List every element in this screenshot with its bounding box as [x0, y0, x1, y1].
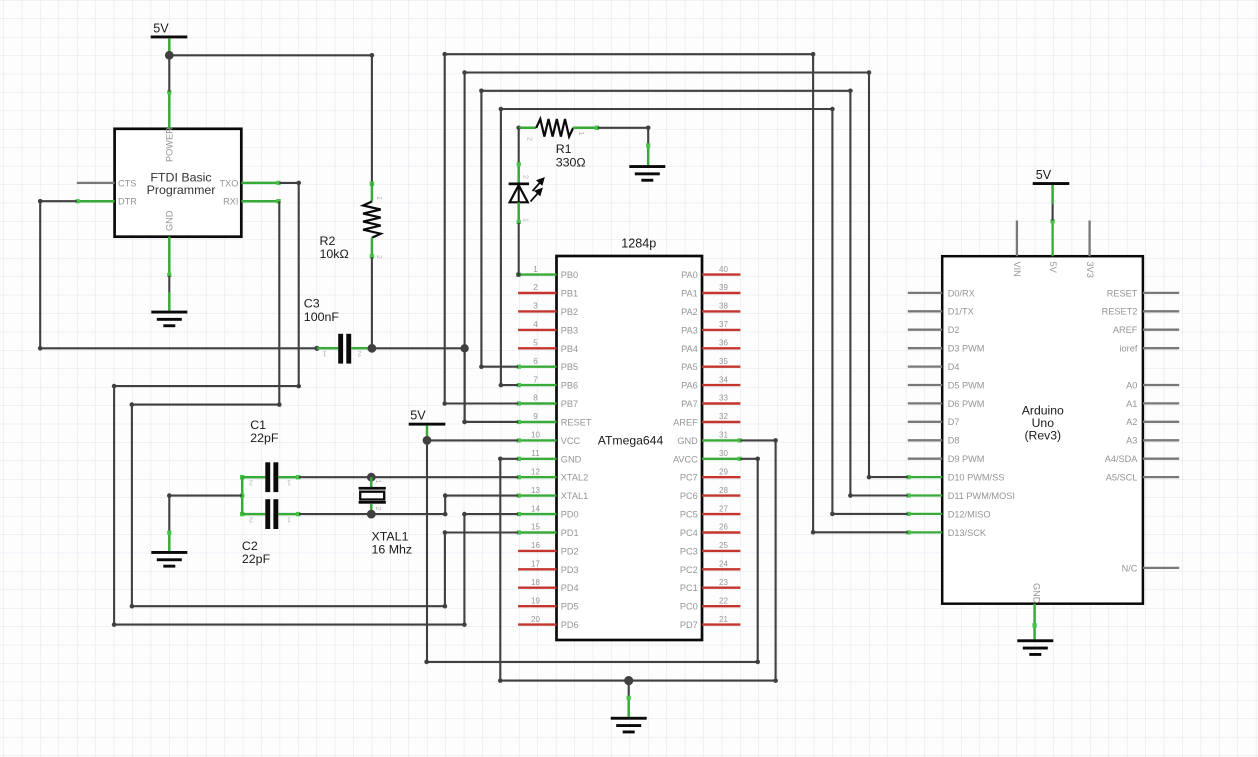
pin CTS (FTDI left) — [77, 178, 137, 188]
pin D13/SCK (Arduino left) — [907, 528, 987, 538]
pin 20 PD6 (ATmega left) — [518, 615, 579, 630]
svg-text:A2: A2 — [1126, 417, 1137, 427]
wire FTDI GND to ground — [168, 276, 170, 293]
capacitor C3 — [304, 297, 372, 364]
svg-text:(Rev3): (Rev3) — [1025, 429, 1062, 443]
pin 3V3 (Arduino top) — [1085, 221, 1095, 278]
svg-text:34: 34 — [719, 375, 728, 384]
pin RESET (Arduino right) — [1107, 288, 1179, 298]
svg-text:CTS: CTS — [118, 178, 136, 188]
pin A5/SCL (Arduino right) — [1106, 473, 1179, 483]
pin D2 (Arduino left) — [908, 325, 960, 335]
ground central below ATmega — [611, 717, 647, 734]
wire 5V-to-Arduino — [1052, 204, 1054, 221]
pin 5 PB4 (ATmega left) — [518, 339, 578, 354]
svg-text:14: 14 — [531, 504, 540, 513]
svg-text:5V: 5V — [410, 409, 426, 423]
svg-text:GND: GND — [1031, 583, 1041, 604]
Arduino Uno (Rev3) body — [942, 256, 1143, 604]
svg-text:26: 26 — [719, 523, 728, 532]
LED D1 — [509, 162, 544, 224]
pin 26 PC4 (ATmega right) — [680, 523, 740, 538]
pin 31 GND (ATmega right) — [677, 431, 741, 446]
node bend at R2 top — [370, 53, 375, 58]
wire RXI net: down, left, down, right, up to PD1 — [130, 201, 519, 608]
svg-text:5V: 5V — [1036, 168, 1052, 182]
svg-text:1: 1 — [287, 479, 291, 486]
svg-text:2: 2 — [522, 175, 529, 179]
svg-text:GND: GND — [165, 210, 175, 231]
pin D5 PWM (Arduino left) — [908, 380, 985, 390]
svg-text:5V: 5V — [153, 22, 169, 36]
pin A3 (Arduino right) — [1126, 436, 1179, 446]
ground below R1 — [629, 165, 665, 182]
pin 6 PB5 (ATmega left) — [517, 357, 578, 372]
pin 23 PC1 (ATmega right) — [680, 578, 740, 593]
pin ioref (Arduino right) — [1120, 344, 1180, 354]
wire R2 top lead down from 5V rail — [371, 55, 373, 183]
wire DTR net: left + down + across to C3 pin1 — [38, 199, 317, 351]
svg-text:32: 32 — [719, 412, 728, 421]
svg-text:20: 20 — [531, 615, 540, 624]
pin 25 PC3 (ATmega right) — [680, 541, 740, 556]
svg-text:PD0: PD0 — [561, 510, 579, 520]
svg-text:PC0: PC0 — [680, 602, 698, 612]
svg-text:33: 33 — [719, 394, 728, 403]
pin 30 AVCC (ATmega right) — [673, 449, 742, 464]
svg-text:PA1: PA1 — [681, 289, 698, 299]
svg-text:PC7: PC7 — [680, 473, 698, 483]
svg-text:1: 1 — [522, 218, 529, 222]
svg-text:C2: C2 — [242, 539, 258, 553]
svg-text:PD2: PD2 — [561, 546, 579, 556]
svg-text:25: 25 — [719, 541, 728, 550]
svg-text:PC3: PC3 — [680, 546, 698, 556]
wire C2 to crystal bottom — [299, 513, 445, 515]
pin 36 PA4 (ATmega right) — [681, 339, 740, 354]
svg-text:330Ω: 330Ω — [556, 155, 586, 169]
pin D4 (Arduino left) — [908, 362, 960, 372]
capacitor C2 — [240, 499, 300, 566]
svg-text:28: 28 — [719, 486, 728, 495]
svg-text:C3: C3 — [304, 297, 320, 311]
svg-text:Programmer: Programmer — [147, 183, 216, 197]
pin 5V (Arduino top) — [1048, 219, 1058, 273]
svg-text:POWER: POWER — [165, 127, 175, 162]
svg-text:ATmega644: ATmega644 — [598, 433, 664, 447]
svg-text:2: 2 — [358, 350, 362, 357]
svg-text:PB6: PB6 — [561, 381, 578, 391]
pin N/C (Arduino right) — [1122, 563, 1180, 573]
ground below FTDI — [151, 311, 187, 328]
svg-text:22pF: 22pF — [250, 431, 279, 445]
svg-text:2: 2 — [249, 515, 253, 522]
pin RESET2 (Arduino right) — [1102, 307, 1180, 317]
svg-text:D1/TX: D1/TX — [948, 307, 974, 317]
svg-text:A1: A1 — [1126, 399, 1137, 409]
wire crystal top to XTAL1 pin — [443, 493, 518, 516]
pin D9 PWM (Arduino left) — [908, 454, 985, 464]
svg-text:D13/SCK: D13/SCK — [948, 528, 987, 538]
svg-text:23: 23 — [719, 578, 728, 587]
ground below Arduino — [1017, 639, 1053, 656]
5V supply symbol above ATmega VCC — [409, 409, 446, 437]
pin D11 PWM/MOSI (Arduino left) — [907, 491, 1015, 501]
svg-text:RESET2: RESET2 — [1102, 307, 1138, 317]
ground lead below FTDI — [168, 292, 171, 310]
svg-text:8: 8 — [533, 394, 538, 403]
pin 21 PD7 (ATmega right) — [680, 615, 740, 630]
pin D7 (Arduino left) — [908, 417, 960, 427]
pin D1/TX (Arduino left) — [908, 307, 974, 317]
svg-text:21: 21 — [719, 615, 728, 624]
pin 37 PA3 (ATmega right) — [681, 320, 740, 335]
svg-text:D5 PWM: D5 PWM — [948, 380, 985, 390]
svg-text:5V: 5V — [1048, 262, 1058, 274]
pin 13 XTAL1 (ATmega left) — [517, 486, 588, 501]
svg-text:PD5: PD5 — [561, 602, 579, 612]
svg-text:PD4: PD4 — [561, 583, 579, 593]
svg-text:PB7: PB7 — [561, 399, 578, 409]
ground below load caps — [151, 551, 187, 568]
wire C1 to XTAL2 pin row — [299, 476, 518, 478]
svg-text:18: 18 — [531, 578, 540, 587]
pin 32 AREF (ATmega right) — [673, 412, 740, 427]
wire stub to central ground — [627, 681, 631, 717]
pin A1 (Arduino right) — [1126, 399, 1179, 409]
svg-text:19: 19 — [531, 596, 540, 605]
pin 2 PB1 (ATmega left) — [518, 283, 578, 298]
svg-text:D12/MISO: D12/MISO — [948, 509, 991, 519]
svg-text:PC1: PC1 — [680, 583, 698, 593]
svg-text:TXO: TXO — [220, 178, 239, 188]
svg-text:1: 1 — [287, 515, 291, 522]
svg-text:PC6: PC6 — [680, 491, 698, 501]
svg-text:PD7: PD7 — [680, 620, 698, 630]
svg-text:PB2: PB2 — [561, 307, 578, 317]
svg-text:D2: D2 — [948, 325, 960, 335]
svg-text:1284p: 1284p — [621, 237, 656, 251]
pin 1 PB0 (ATmega left) — [518, 265, 578, 280]
svg-text:22: 22 — [719, 596, 728, 605]
svg-text:16: 16 — [531, 541, 540, 550]
svg-text:XTAL1: XTAL1 — [561, 491, 588, 501]
svg-text:A5/SCL: A5/SCL — [1106, 473, 1138, 483]
svg-text:12: 12 — [531, 467, 540, 476]
pin 9 RESET (ATmega left) — [517, 412, 592, 427]
node central ground junction — [624, 676, 633, 685]
wire TXO net: down, left, down, right, up to PD0 — [112, 181, 518, 627]
svg-text:10: 10 — [531, 431, 540, 440]
pin 15 PD1 (ATmega left) — [517, 523, 579, 538]
pin GND (Arduino bottom) — [1031, 583, 1041, 639]
pin 19 PD5 (ATmega left) — [518, 596, 579, 611]
pin 11 GND (ATmega left) — [517, 449, 582, 464]
svg-text:2: 2 — [375, 255, 382, 259]
pin A4/SDA (Arduino right) — [1105, 454, 1179, 464]
svg-text:D9 PWM: D9 PWM — [948, 454, 985, 464]
svg-text:R1: R1 — [556, 142, 572, 156]
svg-text:2: 2 — [374, 507, 381, 511]
svg-text:D7: D7 — [948, 417, 960, 427]
svg-text:D11 PWM/MOSI: D11 PWM/MOSI — [948, 491, 1015, 501]
svg-text:35: 35 — [719, 357, 728, 366]
svg-text:VIN: VIN — [1012, 262, 1022, 277]
wire R1 left down to LED — [518, 128, 520, 164]
svg-text:GND: GND — [561, 454, 582, 464]
crystal XTAL1 16 MHz — [359, 473, 413, 557]
pin 7 PB6 (ATmega left) — [517, 375, 578, 390]
svg-text:11: 11 — [531, 449, 540, 458]
svg-text:2: 2 — [533, 283, 538, 292]
svg-text:6: 6 — [533, 357, 538, 366]
svg-text:PA0: PA0 — [681, 270, 698, 280]
wire R2 bottom to C3 junction — [371, 257, 373, 348]
svg-text:17: 17 — [531, 560, 540, 569]
wire SS net RESET to D10 — [462, 70, 907, 479]
wire 5V junction down to FTDI POWER — [168, 51, 170, 92]
svg-text:PA6: PA6 — [681, 381, 698, 391]
svg-text:A4/SDA: A4/SDA — [1105, 454, 1139, 464]
wire C3 junction to RESET drop — [372, 347, 465, 349]
svg-text:1: 1 — [374, 480, 381, 484]
pin 38 PA2 (ATmega right) — [681, 302, 740, 317]
svg-text:D0/RX: D0/RX — [948, 288, 975, 298]
svg-text:PB0: PB0 — [561, 270, 578, 280]
svg-text:PB5: PB5 — [561, 362, 578, 372]
svg-text:1: 1 — [323, 350, 327, 357]
FTDI Basic Programmer body — [115, 129, 242, 237]
pin AREF (Arduino right) — [1113, 325, 1179, 335]
svg-text:RESET: RESET — [561, 418, 592, 428]
svg-text:PD1: PD1 — [561, 528, 579, 538]
svg-text:100nF: 100nF — [304, 310, 340, 324]
pin 17 PD3 (ATmega left) — [518, 560, 579, 575]
pin 4 PB3 (ATmega left) — [518, 320, 578, 335]
pin 40 PA0 (ATmega right) — [681, 265, 740, 280]
pin TXO (FTDI right) — [220, 178, 281, 188]
svg-text:D4: D4 — [948, 362, 960, 372]
pin 34 PA6 (ATmega right) — [681, 375, 740, 390]
pin 8 PB7 (ATmega left) — [517, 394, 578, 409]
svg-text:38: 38 — [719, 302, 728, 311]
wire LED to PB0 — [516, 223, 521, 277]
svg-text:PD6: PD6 — [561, 620, 579, 630]
svg-text:1: 1 — [375, 196, 382, 200]
svg-text:24: 24 — [719, 560, 728, 569]
pin 10 VCC (ATmega left) — [517, 431, 581, 446]
node junction 5V/VCC — [423, 436, 432, 445]
svg-text:D3 PWM: D3 PWM — [948, 344, 985, 354]
resistor R2 — [320, 182, 383, 262]
svg-text:PC4: PC4 — [680, 528, 698, 538]
pin 39 PA1 (ATmega right) — [681, 283, 740, 298]
svg-text:37: 37 — [719, 320, 728, 329]
pin 18 PD4 (ATmega left) — [518, 578, 579, 593]
5V supply symbol above Arduino — [1033, 168, 1070, 204]
pin VIN (Arduino top) — [1012, 221, 1022, 277]
wire C1/C2 common leg — [240, 477, 244, 514]
svg-text:36: 36 — [719, 339, 728, 348]
svg-text:PA2: PA2 — [681, 307, 698, 317]
svg-text:29: 29 — [719, 467, 728, 476]
svg-text:31: 31 — [719, 431, 728, 440]
svg-text:ioref: ioref — [1120, 344, 1138, 354]
resistor R1 — [516, 119, 599, 169]
svg-text:PB4: PB4 — [561, 344, 578, 354]
svg-text:D6 PWM: D6 PWM — [948, 399, 985, 409]
svg-text:PD3: PD3 — [561, 565, 579, 575]
pin 27 PC5 (ATmega right) — [680, 504, 740, 519]
svg-text:9: 9 — [533, 412, 538, 421]
svg-text:4: 4 — [533, 320, 538, 329]
svg-text:1: 1 — [577, 132, 584, 136]
svg-text:27: 27 — [719, 504, 728, 513]
pin 16 PD2 (ATmega left) — [518, 541, 579, 556]
wire 5V junction to VCC pin — [427, 439, 518, 441]
svg-text:D8: D8 — [948, 436, 960, 446]
svg-text:PA3: PA3 — [681, 325, 698, 335]
svg-text:PA5: PA5 — [681, 362, 698, 372]
5V supply symbol above FTDI — [151, 22, 188, 52]
svg-text:3V3: 3V3 — [1085, 262, 1095, 278]
svg-text:40: 40 — [719, 265, 728, 274]
wire cap leg to ground — [167, 493, 242, 551]
svg-text:22pF: 22pF — [242, 552, 271, 566]
pin D3 PWM (Arduino left) — [908, 344, 985, 354]
svg-text:RXI: RXI — [223, 197, 238, 207]
pin D10 PWM/SS (Arduino left) — [907, 473, 1005, 483]
svg-text:AREF: AREF — [673, 418, 698, 428]
pin 12 XTAL2 (ATmega left) — [517, 467, 588, 482]
node junction 5V/FTDI — [165, 51, 174, 60]
wire ATmega GND(11) to ground rail — [498, 457, 518, 681]
node junction RESET net — [460, 344, 468, 352]
svg-text:XTAL1: XTAL1 — [372, 529, 409, 543]
wire ATmega GND(31) to ground rail — [498, 438, 778, 683]
wire SCK net PB7 to D13 — [442, 52, 907, 535]
pin 33 PA7 (ATmega right) — [681, 394, 740, 409]
pin D8 (Arduino left) — [908, 436, 960, 446]
svg-text:PC5: PC5 — [680, 510, 698, 520]
svg-text:10kΩ: 10kΩ — [320, 247, 349, 261]
pin 35 PA5 (ATmega right) — [681, 357, 740, 372]
svg-text:1: 1 — [533, 265, 538, 274]
svg-text:D10 PWM/SS: D10 PWM/SS — [948, 473, 1005, 483]
pin D0/RX (Arduino left) — [908, 288, 975, 298]
svg-text:3: 3 — [533, 302, 538, 311]
pin A0 (Arduino right) — [1126, 380, 1179, 390]
svg-text:GND: GND — [677, 436, 698, 446]
svg-text:XTAL2: XTAL2 — [561, 473, 588, 483]
node junction C3/R2 — [368, 344, 377, 353]
pin RXI (FTDI right) — [223, 197, 281, 207]
wire 5V junction to R2 top — [169, 54, 372, 56]
svg-text:DTR: DTR — [118, 197, 137, 207]
svg-text:A0: A0 — [1126, 380, 1137, 390]
svg-text:15: 15 — [531, 523, 540, 532]
wire RESET net down to pin 9 — [462, 348, 518, 424]
svg-text:2: 2 — [249, 479, 253, 486]
svg-text:PC2: PC2 — [680, 565, 698, 575]
svg-text:2: 2 — [526, 137, 533, 141]
wire 5V junction down to AVCC rail — [424, 440, 760, 664]
svg-text:R2: R2 — [320, 234, 336, 248]
pin A2 (Arduino right) — [1126, 417, 1179, 427]
svg-text:PA4: PA4 — [681, 344, 698, 354]
svg-text:A3: A3 — [1126, 436, 1137, 446]
IC U1 ATmega644 (1284p) body — [557, 237, 703, 640]
svg-text:AVCC: AVCC — [673, 454, 698, 464]
svg-text:VCC: VCC — [561, 436, 581, 446]
svg-text:5: 5 — [533, 339, 538, 348]
pin POWER (FTDI top) — [165, 90, 175, 162]
svg-text:AREF: AREF — [1113, 325, 1138, 335]
pin 3 PB2 (ATmega left) — [518, 302, 578, 317]
svg-text:C1: C1 — [250, 418, 266, 432]
svg-text:16 Mhz: 16 Mhz — [372, 543, 413, 557]
pin 14 PD0 (ATmega left) — [517, 504, 579, 519]
svg-text:PB3: PB3 — [561, 325, 578, 335]
wire MISO net PB6 to D12 — [499, 107, 908, 517]
pin D6 PWM (Arduino left) — [908, 399, 985, 409]
wire MOSI net PB5 to D11 — [479, 89, 908, 498]
svg-text:39: 39 — [719, 283, 728, 292]
pin 29 PC7 (ATmega right) — [680, 467, 740, 482]
svg-text:N/C: N/C — [1122, 563, 1138, 573]
svg-text:30: 30 — [719, 449, 728, 458]
svg-text:13: 13 — [531, 486, 540, 495]
capacitor C1 — [240, 418, 300, 492]
svg-text:7: 7 — [533, 375, 538, 384]
svg-text:PB1: PB1 — [561, 289, 578, 299]
pin 24 PC2 (ATmega right) — [680, 560, 740, 575]
svg-text:RESET: RESET — [1107, 288, 1138, 298]
pin 28 PC6 (ATmega right) — [680, 486, 740, 501]
pin GND (FTDI bottom) — [165, 210, 175, 277]
svg-text:PA7: PA7 — [681, 399, 698, 409]
pin DTR (FTDI left) — [76, 197, 138, 207]
pin D12/MISO (Arduino left) — [907, 509, 991, 519]
wire R1 to ground — [598, 126, 651, 166]
pin 22 PC0 (ATmega right) — [680, 596, 740, 611]
